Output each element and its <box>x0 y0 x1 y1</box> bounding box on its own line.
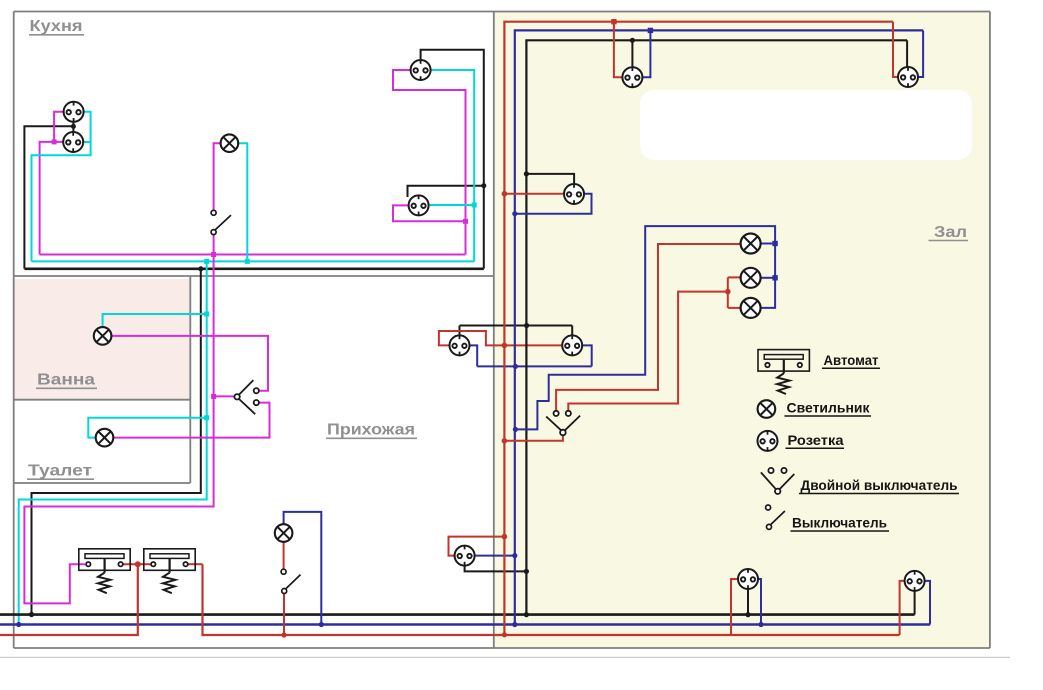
wire blue socket B <box>925 581 930 625</box>
socket K2 <box>63 131 83 152</box>
bus red left segment <box>0 564 138 635</box>
legend label Двойной выключатель <box>799 477 959 494</box>
wire magenta bath lamp <box>111 336 268 391</box>
junction blue socket H <box>512 553 517 558</box>
wire cyan K2 stub <box>83 141 90 143</box>
label Кухня <box>29 18 84 35</box>
wire cyan riser <box>19 261 207 624</box>
junction black sockets L R <box>524 323 529 328</box>
svg-text:Туалет: Туалет <box>28 463 92 480</box>
junction red lamp23 <box>725 289 731 295</box>
junction blue hall lamp <box>319 622 324 627</box>
svg-text:Кухня: Кухня <box>30 18 83 35</box>
wire blue lamp loop <box>515 226 775 429</box>
switch kitchen <box>211 210 231 234</box>
wire black K1-K2 link <box>72 121 74 132</box>
junction red main bus <box>502 632 507 637</box>
junction black Z3 <box>524 171 529 176</box>
junction blue main bus <box>512 622 517 627</box>
junction blue T1 <box>648 28 653 33</box>
bus red right segment <box>203 564 900 635</box>
wall: toilet bottom <box>14 482 191 484</box>
wire blue socket Z3 <box>515 194 592 214</box>
junction cyan K4 <box>472 203 477 208</box>
wire magenta K1 loop <box>54 112 64 142</box>
wire red socket L loop <box>439 331 563 345</box>
wire magenta K3 loop <box>393 70 466 221</box>
wire red main <box>504 22 893 635</box>
socket K1 <box>64 101 84 122</box>
bus blue <box>0 623 930 625</box>
lamp Z2 <box>741 268 761 288</box>
wire black socket A <box>747 589 749 614</box>
socket T1 <box>622 67 642 88</box>
legend label Светильник <box>785 400 872 417</box>
wall: outer left <box>13 12 15 649</box>
legend lamp symbol <box>758 400 776 418</box>
socket H <box>455 545 475 566</box>
wire blue lamp2 stub <box>761 277 775 279</box>
junction black socket A <box>745 612 750 617</box>
wire red hall lamp switch <box>283 542 285 569</box>
junction blue lamp loop <box>513 427 518 432</box>
double switch zal <box>546 411 580 436</box>
legend socket symbol <box>758 430 778 451</box>
wire black main <box>526 40 907 614</box>
socket B <box>905 570 925 591</box>
wire magenta kitchen bus <box>40 254 466 256</box>
label Туалет <box>27 463 94 480</box>
wire cyan K4 stub <box>429 204 474 206</box>
wire magenta ds lower to toilet lamp <box>114 403 270 438</box>
wire black socket B <box>914 591 916 615</box>
junction blue sockets L R <box>513 364 518 369</box>
socket L <box>450 335 470 356</box>
wire cyan K1 loop <box>32 112 91 262</box>
wire red socket T2 <box>893 22 898 77</box>
wire red socket A <box>731 579 738 635</box>
wall: divider hall/zal <box>493 12 495 649</box>
junction magenta K2 <box>52 139 57 144</box>
wire red AB2 out <box>188 563 203 565</box>
breaker AB2 <box>144 549 195 593</box>
lamp Z3c <box>741 298 761 318</box>
double switch bath <box>234 380 258 414</box>
wire magenta K2 stub <box>40 142 64 255</box>
wire black kitchen left riser <box>24 126 73 268</box>
junction black riser bus <box>29 612 34 617</box>
wire cyan toilet lamp <box>88 418 206 438</box>
junction cyan kitchen lamp <box>245 259 250 264</box>
wire blue socket T1 <box>642 30 650 77</box>
junction magenta K4 <box>463 219 468 224</box>
breaker AB1 <box>79 549 130 593</box>
legend breaker symbol <box>758 350 809 394</box>
legend label Автомат <box>822 352 880 368</box>
junction red hall switch <box>281 632 286 637</box>
baseboard line <box>0 656 1010 658</box>
junction red breaker link <box>135 561 141 567</box>
wall: outer top <box>14 11 990 13</box>
wire magenta ds common <box>214 395 235 397</box>
switch hallway <box>281 569 300 593</box>
junction red socket H <box>502 534 508 540</box>
wall: bottom <box>14 647 990 649</box>
wire red breaker link <box>123 563 152 565</box>
junction black T1 <box>630 38 635 43</box>
svg-text:Двойной выключатель: Двойной выключатель <box>801 477 958 493</box>
wire blue socket T2 <box>918 30 923 77</box>
wall: bath toilet divider <box>14 399 191 401</box>
wire black socket H <box>465 565 527 571</box>
junction black socket H <box>524 569 529 574</box>
legend switch symbol <box>766 505 785 529</box>
wire magenta riser <box>24 255 213 604</box>
lamp Z1 <box>741 234 761 254</box>
lamp hallway <box>275 524 293 542</box>
junction black kitchen right <box>481 183 486 188</box>
lamp kitchen <box>221 134 239 152</box>
legend label Выключатель <box>791 515 890 532</box>
wire cyan kitchen bus <box>32 260 475 262</box>
wire black sockets L R <box>460 326 573 336</box>
label Ванна <box>36 372 97 389</box>
wire red socket T1 <box>614 22 623 77</box>
junction blue socket A <box>758 622 763 627</box>
svg-text:Прихожая: Прихожая <box>327 422 415 439</box>
wire black socket T1 <box>631 40 633 67</box>
wire red socket Z3 <box>504 193 564 195</box>
wire red socket H <box>449 537 505 556</box>
junction blue Z3 <box>512 211 517 216</box>
junction black K1K2 <box>71 124 76 129</box>
wire blue hall lamp <box>284 512 322 625</box>
svg-text:Зал: Зал <box>934 224 967 241</box>
wire red ds common to main <box>504 435 563 440</box>
wire red hall switch bus <box>283 593 285 635</box>
junction blue cyan tie <box>16 622 21 627</box>
socket A <box>738 568 758 589</box>
wire blue socket A <box>758 579 761 625</box>
wire blue sockets L R <box>469 345 591 366</box>
junction red Z3 <box>502 191 508 197</box>
svg-text:Светильник: Светильник <box>787 400 871 416</box>
junction magenta bath switch <box>211 394 216 399</box>
wall: zal right <box>989 12 991 649</box>
junction red T1 <box>611 19 616 24</box>
label Зал <box>929 224 969 241</box>
lamp bath <box>94 327 112 345</box>
wire blue lamp1 stub <box>761 243 775 245</box>
socket K3 <box>411 59 431 80</box>
junction cyan bath lamp <box>204 312 209 317</box>
svg-text:Розетка: Розетка <box>788 432 844 448</box>
wire black kitchen bottom wall <box>24 267 483 270</box>
room fill: zal <box>495 12 989 648</box>
junction blue lamp2 <box>772 275 777 280</box>
wire magenta K4 loop <box>393 205 466 254</box>
wire blue socket H <box>474 555 515 557</box>
lamp toilet <box>96 429 114 447</box>
legend label Розетка <box>786 432 845 449</box>
junction black kitchen bottom <box>198 266 203 271</box>
wire red lamp23 link <box>728 277 741 308</box>
wire magenta kitchen lamp <box>214 143 221 210</box>
socket T2 <box>898 66 918 87</box>
junction magenta kitchen switch <box>211 252 216 257</box>
svg-text:Ванна: Ванна <box>37 372 95 389</box>
label Прихожая <box>326 422 417 439</box>
socket K4 <box>409 195 429 216</box>
wire blue main <box>515 30 923 624</box>
junction red socket L <box>502 343 508 349</box>
white patch <box>640 90 972 160</box>
room fill: bath <box>15 279 191 400</box>
wire cyan bath lamp <box>103 314 207 327</box>
wall: hallway top <box>14 275 494 277</box>
svg-text:Автомат: Автомат <box>824 352 879 368</box>
wire black kitchen right <box>421 50 484 269</box>
wire red socket B <box>900 581 905 635</box>
wire black socket Z3 <box>526 174 574 185</box>
wire magenta kitchen switch to bus <box>213 235 215 255</box>
junction red ds common <box>502 438 508 444</box>
bus black <box>0 613 915 616</box>
wire cyan kitchen lamp <box>238 143 247 261</box>
wire red lamp23 feeder <box>568 292 728 411</box>
junction cyan toilet lamp <box>204 415 209 420</box>
socket Z3 <box>564 183 584 204</box>
wire black riser <box>32 269 201 615</box>
svg-text:Выключатель: Выключатель <box>792 515 887 531</box>
junction blue lamp1 <box>772 241 777 246</box>
wire red lamp1 <box>556 244 740 411</box>
socket R <box>562 335 582 356</box>
legend double switch symbol <box>761 468 794 494</box>
junction black main bus <box>524 612 529 617</box>
wire black socket T2 <box>906 40 908 67</box>
wall: bath right <box>189 276 191 483</box>
wire cyan K3 loop <box>430 70 474 261</box>
junction cyan riser <box>204 259 209 264</box>
wire black to K4 <box>408 186 484 197</box>
